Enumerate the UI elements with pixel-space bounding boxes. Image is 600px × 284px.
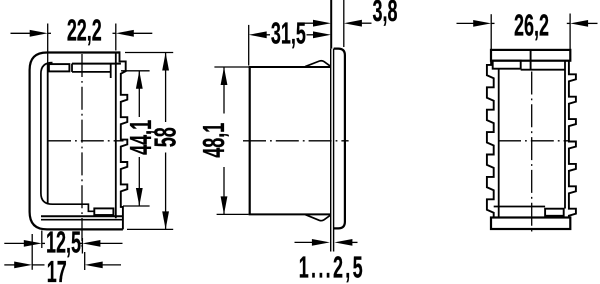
left view: bezel lip front face — [47, 63, 49, 205]
middle view: bezel flange — [334, 49, 345, 229]
svg-text:22,2: 22,2 — [67, 13, 102, 47]
right view: horizontal center line — [498, 140, 568, 142]
middle view: panel front surface — [330, 49, 332, 252]
dimension 22,2 extension line left — [47, 24, 49, 65]
middle view: panel rear surface — [333, 49, 335, 252]
dimension 31,5 extension line left — [248, 25, 250, 66]
middle view: panel extension above bezel — [330, 0, 332, 49]
dimension 26,2 extension line left — [490, 14, 492, 49]
dimension 3,8 arrow left — [301, 22, 316, 24]
right view: top latch window — [493, 61, 521, 69]
middle view: body top edge — [249, 66, 331, 68]
dimension 26,2 extension line right — [569, 14, 571, 50]
dimension 17 extension line right — [84, 252, 86, 270]
dimension 12,5 arrow right — [97, 242, 123, 244]
dimension 22,2 arrow left — [11, 32, 34, 34]
dimension 17 arrow left — [4, 264, 17, 266]
middle view: bezel face extension line — [343, 0, 345, 47]
right view: top plate divider — [530, 50, 532, 70]
dimension 44,1 line+arrows — [138, 71, 140, 117]
dimension 12,5 arrow left — [4, 242, 27, 244]
left view: body top edge — [72, 63, 121, 65]
dimension 17 arrow right — [100, 264, 121, 266]
dimension 31,5 arrow right — [307, 34, 318, 36]
dimension 22,2 extension line right — [115, 24, 117, 51]
svg-text:31,5: 31,5 — [271, 16, 306, 50]
dimension 44,1 extension line top — [121, 70, 150, 72]
dimension 3,8 arrow right — [344, 20, 362, 27]
dimension 48,1 line+arrows — [223, 67, 225, 114]
svg-text:3,8: 3,8 — [373, 0, 398, 28]
dimension 12,5 extension line right — [81, 238, 83, 254]
right view: right serrated edge — [569, 61, 576, 218]
left view: step at body top right — [110, 64, 112, 78]
dimension 22,2 line stubs — [48, 32, 51, 34]
right view: left serrated edge — [487, 61, 494, 218]
left view: outer C-contour of bezel frame — [30, 53, 123, 230]
right view: body top edge right of window — [521, 69, 565, 71]
svg-text:48,1: 48,1 — [197, 123, 231, 158]
right view: vertical center line — [531, 72, 533, 234]
dimension 17 extension line left — [31, 234, 33, 270]
right view: top plate — [491, 50, 570, 61]
left view: body back edge — [115, 53, 117, 219]
dimension 12,5 extension line left — [41, 231, 43, 249]
left view: step at body top left — [71, 64, 73, 72]
dimension 58 extension line top — [125, 52, 173, 54]
left view: body bottom second line — [41, 219, 123, 221]
middle view: body bottom edge — [249, 213, 331, 215]
middle view: bottom latch ramp — [305, 215, 330, 221]
left view: horizontal center line — [48, 140, 124, 142]
dimension 26,2 arrow right — [570, 20, 588, 27]
svg-text:17: 17 — [47, 255, 67, 284]
dimension 1...2,5 arrow right — [334, 239, 352, 246]
left view: right serrated clip edge — [120, 51, 128, 229]
right view: bottom latch window — [545, 209, 564, 216]
right view: body bottom edge left of window — [494, 206, 545, 208]
svg-text:1...2,5: 1...2,5 — [299, 251, 365, 284]
left view: body bottom edge — [41, 215, 123, 217]
left view: inner bezel contour — [41, 63, 94, 212]
left view: vertical center line — [81, 54, 83, 248]
left view: body top inner line — [72, 71, 111, 73]
dimension 48,1 extension line top — [214, 66, 248, 68]
dimension 58 extension line bottom — [127, 228, 173, 230]
dimension 1...2,5 arrow left — [295, 241, 315, 243]
right view: body right inner edge — [564, 61, 566, 209]
dimension 26,2 arrow left — [457, 22, 478, 24]
dimension 44,1 extension line bottom — [123, 205, 150, 207]
dimension 26,2 line stubs — [491, 22, 494, 24]
dimension 17 line segments — [32, 264, 44, 266]
dimension 48,1 extension line bottom — [217, 213, 249, 215]
svg-text:58: 58 — [148, 127, 182, 147]
left view: top latch window — [49, 64, 70, 71]
middle view: horizontal center line — [243, 140, 349, 142]
dimension 22,2 arrow right — [131, 32, 153, 34]
right view: body left inner edge — [498, 69, 500, 218]
right view: bottom plate — [491, 218, 570, 230]
middle view: body left edge — [249, 67, 251, 214]
middle view: top latch ramp — [305, 61, 330, 67]
svg-text:26,2: 26,2 — [514, 9, 549, 43]
dimension 31,5 arrow left — [249, 31, 267, 38]
left view: bottom latch window — [94, 208, 113, 215]
dimension 58 line+arrows — [165, 53, 167, 123]
